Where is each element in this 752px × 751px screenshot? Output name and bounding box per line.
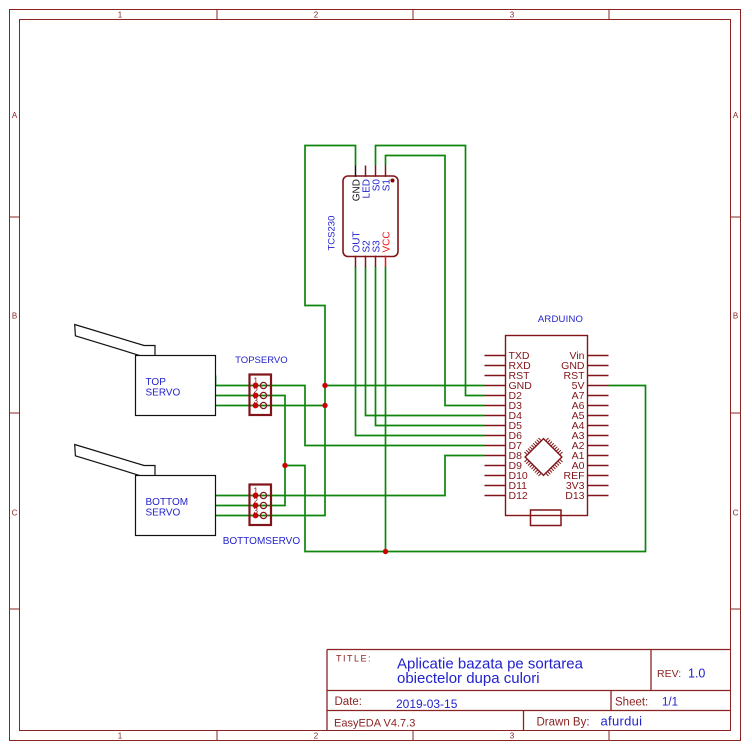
TCS230 pin stub S2 (bottom) [365,256,367,267]
svg-text:2: 2 [314,732,319,741]
junction VCC/5V rail dot [383,549,388,554]
BOTTOM SERVO M2 arm [75,445,155,476]
TCS230 pin stub VCC (bottom) [385,256,387,267]
TCS230 pin stub S3 (bottom) [375,256,377,267]
wire: TCS230 VCC down to 5V rail [385,267,387,552]
junction 5V branch dot [282,463,287,468]
TOP SERVO M1 arm [75,325,155,356]
svg-text:2019-03-15: 2019-03-15 [396,697,458,711]
TCS230 pin stub OUT (bottom) [355,256,357,267]
wire: 5V vertical between servo pin2 rows [216,396,286,506]
Arduino MCU chip (diamond) [525,439,562,476]
connector TOPSERVO J1 body [250,375,272,416]
connector TOPSERVO J1 pin 2 junction dot [253,393,259,399]
op Arduino U2 body [506,336,588,516]
svg-text:TOPSERVO: TOPSERVO [235,355,287,366]
wire: 5V rail from Arduino 5V around bottom [285,386,646,552]
Arduino pin stub D13 (right) [588,495,609,497]
TOP SERVO M1 body [136,356,216,416]
Arduino pin stub D4 (left) [485,415,506,417]
Arduino pin stub RST (left) [485,375,506,377]
wire: TCS230 S2 to Arduino D4 [366,267,485,416]
Arduino pin stub D2 (left) [485,395,506,397]
Arduino pin stub A3 (right) [588,435,609,437]
TCS230 pin stub S0 (top) [375,166,377,177]
svg-text:VCC: VCC [382,231,393,252]
Arduino pin stub 3V3 (right) [588,485,609,487]
svg-text:SERVO: SERVO [146,387,181,398]
Arduino pin stub TXD (left) [485,355,506,357]
Arduino pin stub A7 (right) [588,395,609,397]
connector BOTTOMSERVO J2 pin 3 junction dot [253,513,259,519]
wire: TCS230 S0 to Arduino D2 [376,146,485,396]
Arduino pin stub GND (right) [588,365,609,367]
connector BOTTOMSERVO J2 pin 1 circle [260,492,266,498]
TCS230 sensor U1 body [343,176,398,257]
connector TOPSERVO J1 pin 3 junction dot [253,403,259,409]
svg-text:1: 1 [118,732,123,741]
wire: TCS230 S3 to Arduino D5 [376,267,485,426]
svg-text:SERVO: SERVO [146,507,181,518]
Arduino pin stub REF (right) [588,475,609,477]
svg-text:B: B [733,312,738,321]
connector TOPSERVO J1 pin 2 circle [260,392,266,398]
Arduino pin stub D8 (left) [485,455,506,457]
Arduino pin stub A0 (right) [588,465,609,467]
Arduino pin stub D9 (left) [485,465,506,467]
Arduino pin stub D5 (left) [485,425,506,427]
connector BOTTOMSERVO J2 pin 3 circle [260,512,266,518]
connector TOPSERVO J1 pin 3 circle [260,402,266,408]
TCS230 pin stub S1 (top) [385,166,387,177]
svg-text:TCS230: TCS230 [327,216,338,251]
Arduino pin stub A6 (right) [588,405,609,407]
Arduino pin stub D3 (left) [485,405,506,407]
svg-text:Sheet:: Sheet: [615,697,648,709]
connector BOTTOMSERVO J2 pin 1 junction dot [253,493,259,499]
svg-text:ARDUINO: ARDUINO [538,314,583,325]
Arduino pin stub D11 (left) [485,485,506,487]
svg-text:C: C [733,509,739,518]
wire: GND branch to TOPSERVO pin3 [216,405,326,407]
TCS230 pin stub GND (top) [355,166,357,177]
Arduino pin stub D12 (left) [485,495,506,497]
Arduino pin stub RXD (left) [485,365,506,367]
Arduino pin stub RST (right) [588,375,609,377]
Arduino pin stub D6 (left) [485,435,506,437]
Arduino pin stub D7 (left) [485,445,506,447]
connector BOTTOMSERVO J2 body [250,485,272,526]
connector TOPSERVO J1 pin 1 junction dot [253,383,259,389]
connector TOPSERVO J1 pin 1 circle [260,382,266,388]
Arduino pin stub Vin (right) [588,355,609,357]
svg-text:obiectelor dupa culori: obiectelor dupa culori [397,670,540,687]
TCS230 pin stub LED (top, unconnected) [365,166,367,177]
frame column/row tick dividers [216,10,218,20]
svg-text:EasyEDA V4.7.3: EasyEDA V4.7.3 [334,718,415,730]
Arduino pin stub GND (left) [485,385,506,387]
svg-text:afurdui: afurdui [601,714,643,729]
Arduino pin stub A2 (right) [588,445,609,447]
Arduino MCU chip pin ticks [525,438,563,476]
svg-text:3: 3 [510,732,515,741]
BOTTOM SERVO M2 body [136,476,216,536]
svg-text:BOTTOMSERVO: BOTTOMSERVO [223,536,301,547]
svg-text:1: 1 [118,11,123,20]
Arduino pin stub 5V (right) [588,385,609,387]
svg-text:TITLE:: TITLE: [336,654,372,664]
Arduino pin stub A1 (right) [588,455,609,457]
wire: GND net from TCS230 GND down to servos/arduino [216,146,356,516]
Arduino crystal/connector block at bottom [531,510,562,526]
wire: GND branch to Arduino GND pin [325,385,485,387]
svg-text:A: A [12,111,18,120]
wire: TCS230 OUT to Arduino D6 [356,267,485,436]
wire: TCS230 S1 to Arduino D3 [386,156,485,406]
TCS230 pin-1 marker dot [391,179,395,183]
junction GND/TOPSERVO pin3 dot [322,403,327,408]
svg-text:1.0: 1.0 [688,667,705,681]
svg-text:B: B [12,312,17,321]
svg-text:1/1: 1/1 [662,697,678,709]
svg-text:3: 3 [510,11,515,20]
svg-text:Drawn By:: Drawn By: [537,717,590,729]
connector BOTTOMSERVO J2 pin 2 circle [260,502,266,508]
svg-text:D12: D12 [509,490,528,502]
connector BOTTOMSERVO J2 pin 2 junction dot [253,503,259,509]
wire: BOTTOMSERVO pin1 signal to Arduino D8 [216,456,485,496]
Arduino pin stub D10 (left) [485,475,506,477]
svg-text:C: C [12,509,18,518]
svg-text:Date:: Date: [335,696,363,708]
svg-text:D13: D13 [565,490,584,502]
svg-text:S1: S1 [382,179,393,192]
Arduino pin stub A4 (right) [588,425,609,427]
svg-text:REV:: REV: [657,668,681,680]
svg-text:2: 2 [314,11,319,20]
wire: TOPSERVO pin1 signal to Arduino D7 [216,376,485,446]
svg-text:A: A [733,111,739,120]
junction GND/Arduino dot [322,383,327,388]
title block outline [327,650,731,731]
Arduino pin stub A5 (right) [588,415,609,417]
